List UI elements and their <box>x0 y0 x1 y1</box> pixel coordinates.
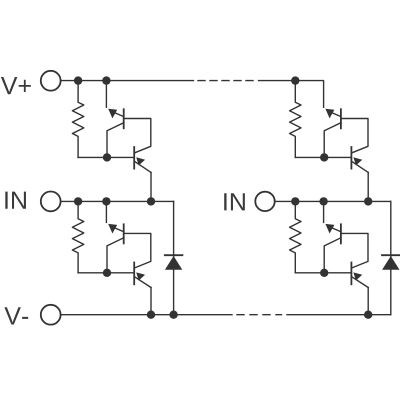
wire Q1 emitter from V+ <box>105 81 107 108</box>
junction dot IN/Q3 <box>102 197 110 205</box>
junction dot V+/R1 <box>74 76 82 84</box>
junction dot Q3 collector / R2 <box>103 269 111 277</box>
terminal IN right <box>255 192 274 211</box>
wire Q1 collector down <box>107 123 124 158</box>
resistor R3 <box>290 81 301 158</box>
transistor Q3 <box>108 224 124 244</box>
junction dot Q4/V- <box>147 311 155 319</box>
wire Q7 emitter from IN2 <box>323 201 325 222</box>
transistor Q5 <box>325 109 341 129</box>
label V- <box>4 307 28 324</box>
wire Q7 collector down <box>324 238 341 273</box>
resistor R1 <box>72 81 83 158</box>
junction dot Q7 collector / R4 <box>320 269 328 277</box>
transistor Q7 <box>325 224 341 244</box>
junction dot IN2/Q7 <box>319 197 327 205</box>
wire IN2 rail right <box>275 200 391 202</box>
resistor R2 <box>72 201 83 272</box>
junction dot Q5 collector / R3 <box>320 153 328 161</box>
junction dot Q8/V- <box>364 311 372 319</box>
wire V- rail left solid <box>61 314 232 316</box>
wire IN rail left <box>61 200 173 202</box>
junction dot V+/Q1 <box>102 76 110 84</box>
wire Q4 emitter to V- rail <box>150 288 152 315</box>
wire V- rail right solid <box>287 314 391 316</box>
junction dot IN/R2 <box>74 197 82 205</box>
diode D2 <box>382 201 400 314</box>
label IN (left) <box>5 192 26 209</box>
junction dot D1/V- <box>169 311 177 319</box>
junction dot Q6/IN2 <box>364 197 372 205</box>
label V+ <box>1 77 31 94</box>
wire R3 bottom to Q6 base <box>295 156 351 158</box>
transistor Q1 <box>108 109 124 129</box>
transistor Q6 <box>351 147 368 172</box>
wire Q3 collector down <box>107 238 124 273</box>
wire R2 bottom to Q4 base <box>78 272 134 274</box>
wire Q1 base to Q2 collector <box>124 119 151 153</box>
wire Q6 emitter to IN2 rail <box>367 172 369 201</box>
wire V+ rail dashed break <box>198 80 253 82</box>
wire Q5 base to Q6 collector <box>341 119 368 153</box>
junction dot V+/R3 <box>291 76 299 84</box>
wire V+ rail left solid <box>61 80 193 82</box>
wire R4 bottom to Q8 base <box>295 272 351 274</box>
wire Q7 base to Q8 collector <box>341 233 368 268</box>
terminal IN left <box>41 192 61 212</box>
wire Q3 base to Q4 collector <box>124 233 151 268</box>
wire Q8 emitter to V- rail <box>367 288 369 315</box>
diode D1 <box>165 201 183 314</box>
wire Q2 emitter to IN rail <box>150 172 152 201</box>
transistor Q8 <box>351 263 368 288</box>
wire Q3 emitter from IN <box>105 201 107 222</box>
terminal V- <box>41 305 61 325</box>
resistor R4 <box>290 201 301 272</box>
transistor Q4 <box>134 263 151 288</box>
junction dot Q1 collector / R1 <box>103 153 111 161</box>
wire V- rail dashed break <box>237 314 282 316</box>
wire V+ rail right solid with corner down <box>259 81 324 108</box>
label IN (right) <box>224 193 245 210</box>
junction dot IN2/R4 <box>291 197 299 205</box>
wire R1 bottom to Q2 base <box>78 156 134 158</box>
transistor Q2 <box>134 147 151 172</box>
terminal V+ <box>41 71 61 91</box>
junction dot Q2/IN <box>147 197 155 205</box>
wire Q5 collector down <box>324 123 341 158</box>
